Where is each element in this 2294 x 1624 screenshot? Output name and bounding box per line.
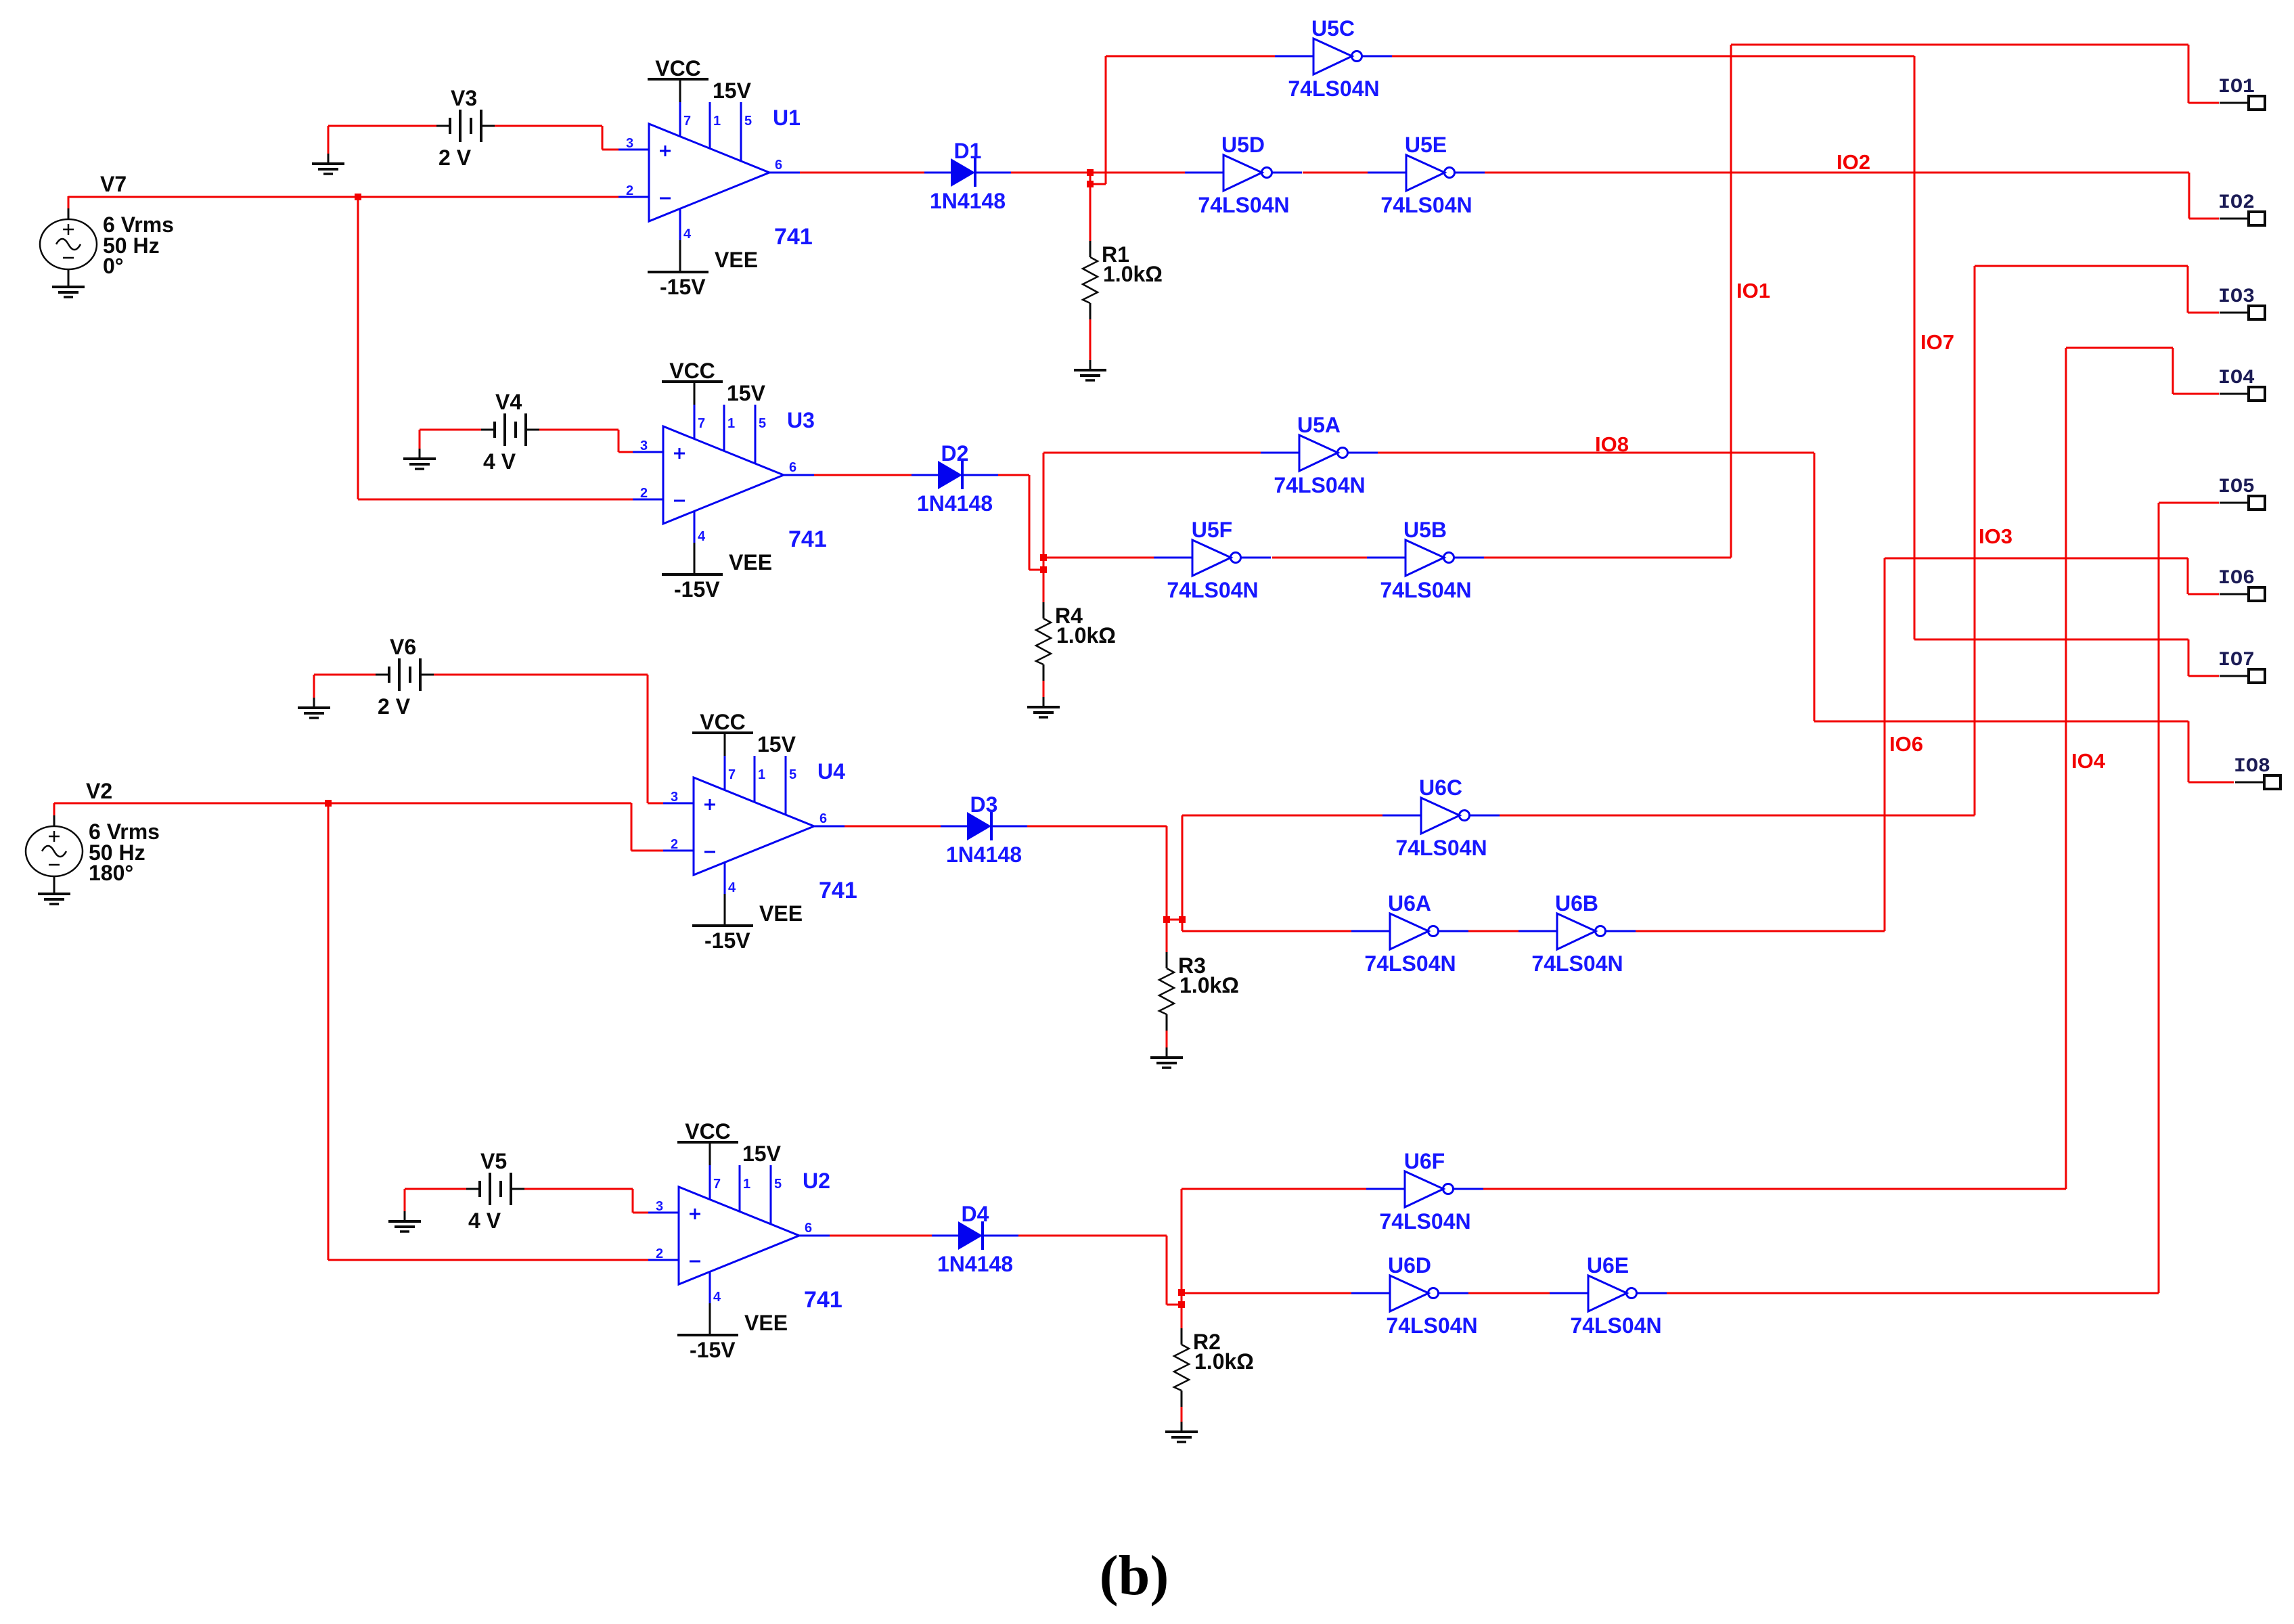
svg-text:5: 5 [744, 114, 752, 129]
svg-text:IO3: IO3 [1979, 524, 2012, 548]
svg-text:D3: D3 [970, 792, 998, 817]
svg-text:74LS04N: 74LS04N [1531, 951, 1623, 976]
svg-text:74LS04N: 74LS04N [1364, 951, 1456, 976]
svg-text:5: 5 [789, 767, 796, 782]
svg-text:74LS04N: 74LS04N [1380, 193, 1472, 217]
svg-text:1: 1 [713, 114, 721, 129]
svg-text:6: 6 [805, 1221, 812, 1236]
svg-text:U1: U1 [773, 106, 801, 130]
svg-text:1.0kΩ: 1.0kΩ [1179, 973, 1239, 997]
svg-text:IO8: IO8 [1595, 432, 1629, 456]
svg-text:2: 2 [640, 486, 648, 501]
svg-text:IO4: IO4 [2218, 367, 2255, 390]
svg-text:1.0kΩ: 1.0kΩ [1056, 623, 1116, 648]
svg-text:1N4148: 1N4148 [937, 1252, 1013, 1276]
svg-text:3: 3 [626, 136, 633, 151]
svg-text:15V: 15V [757, 732, 796, 757]
svg-text:1.0kΩ: 1.0kΩ [1103, 262, 1163, 286]
svg-text:4: 4 [713, 1290, 721, 1305]
svg-text:IO8: IO8 [2234, 755, 2270, 778]
svg-text:IO1: IO1 [2218, 76, 2255, 99]
svg-text:U6E: U6E [1587, 1253, 1629, 1278]
svg-text:15V: 15V [713, 78, 752, 103]
svg-text:IO2: IO2 [2218, 191, 2255, 215]
svg-text:180°: 180° [89, 861, 133, 885]
svg-text:4: 4 [683, 227, 692, 242]
svg-text:741: 741 [804, 1287, 842, 1313]
svg-text:U6F: U6F [1404, 1149, 1445, 1173]
svg-text:IO2: IO2 [1837, 150, 1870, 174]
svg-text:VEE: VEE [759, 901, 803, 926]
svg-text:1N4148: 1N4148 [930, 189, 1006, 213]
svg-text:-15V: -15V [660, 275, 706, 299]
svg-text:1N4148: 1N4148 [917, 491, 993, 516]
svg-text:V2: V2 [86, 779, 112, 803]
svg-text:74LS04N: 74LS04N [1379, 1209, 1470, 1234]
svg-text:VCC: VCC [655, 56, 701, 81]
svg-text:VEE: VEE [744, 1311, 788, 1335]
svg-text:6: 6 [819, 811, 827, 826]
svg-text:74LS04N: 74LS04N [1380, 578, 1471, 602]
svg-text:IO6: IO6 [1889, 732, 1923, 756]
svg-text:U5E: U5E [1405, 133, 1447, 157]
svg-text:U6D: U6D [1388, 1253, 1431, 1278]
svg-text:74LS04N: 74LS04N [1395, 836, 1487, 860]
svg-text:U2: U2 [803, 1169, 830, 1193]
svg-text:741: 741 [788, 526, 827, 552]
svg-text:0°: 0° [103, 254, 124, 278]
svg-text:7: 7 [728, 767, 736, 782]
svg-text:5: 5 [759, 416, 766, 431]
svg-text:741: 741 [774, 224, 813, 250]
svg-text:IO3: IO3 [2218, 286, 2255, 309]
svg-text:15V: 15V [742, 1142, 782, 1166]
svg-text:4 V: 4 V [468, 1209, 501, 1233]
svg-text:3: 3 [671, 790, 678, 805]
svg-text:1: 1 [743, 1177, 750, 1192]
svg-text:IO1: IO1 [1736, 279, 1770, 302]
svg-text:U5B: U5B [1403, 518, 1447, 542]
svg-text:4: 4 [728, 880, 736, 895]
svg-text:IO7: IO7 [1920, 330, 1954, 354]
svg-text:IO6: IO6 [2218, 567, 2255, 590]
svg-text:-15V: -15V [690, 1338, 736, 1362]
svg-text:4: 4 [698, 529, 706, 544]
svg-text:1N4148: 1N4148 [946, 842, 1022, 867]
svg-text:VCC: VCC [685, 1119, 731, 1144]
svg-text:1: 1 [758, 767, 765, 782]
svg-text:1.0kΩ: 1.0kΩ [1194, 1349, 1254, 1374]
svg-text:15V: 15V [727, 381, 766, 405]
svg-text:5: 5 [774, 1177, 782, 1192]
svg-text:3: 3 [640, 438, 648, 453]
svg-text:2: 2 [626, 183, 633, 198]
svg-text:7: 7 [713, 1177, 721, 1192]
svg-text:U4: U4 [817, 759, 845, 784]
svg-text:D1: D1 [954, 139, 982, 163]
svg-text:74LS04N: 74LS04N [1288, 76, 1379, 101]
svg-text:74LS04N: 74LS04N [1198, 193, 1289, 217]
svg-text:VEE: VEE [715, 248, 758, 272]
svg-text:6: 6 [789, 460, 796, 475]
svg-text:U5D: U5D [1221, 133, 1265, 157]
svg-text:U5C: U5C [1311, 16, 1355, 41]
svg-text:VEE: VEE [729, 550, 772, 574]
svg-text:U6C: U6C [1419, 775, 1462, 800]
svg-text:7: 7 [698, 416, 705, 431]
svg-text:V6: V6 [390, 635, 416, 659]
svg-text:U5A: U5A [1297, 413, 1341, 437]
svg-text:(b): (b) [1100, 1544, 1169, 1607]
svg-text:U5F: U5F [1192, 518, 1232, 542]
svg-text:2 V: 2 V [438, 145, 472, 170]
svg-text:6: 6 [775, 158, 782, 173]
svg-text:74LS04N: 74LS04N [1570, 1313, 1661, 1338]
svg-text:IO4: IO4 [2071, 749, 2106, 773]
svg-text:4 V: 4 V [483, 449, 516, 474]
svg-text:U3: U3 [787, 408, 815, 432]
svg-text:D4: D4 [962, 1202, 989, 1226]
svg-text:74LS04N: 74LS04N [1274, 473, 1365, 497]
svg-text:VCC: VCC [700, 710, 746, 734]
svg-text:3: 3 [656, 1199, 663, 1214]
svg-text:V3: V3 [451, 86, 477, 110]
svg-text:-15V: -15V [674, 577, 720, 602]
svg-text:U6B: U6B [1555, 891, 1598, 916]
svg-text:V4: V4 [495, 390, 522, 414]
svg-text:IO5: IO5 [2218, 476, 2255, 499]
svg-text:1: 1 [727, 416, 735, 431]
svg-text:U6A: U6A [1388, 891, 1431, 916]
svg-text:74LS04N: 74LS04N [1167, 578, 1258, 602]
svg-text:D2: D2 [941, 441, 969, 466]
svg-text:7: 7 [683, 114, 691, 129]
svg-text:VCC: VCC [669, 359, 715, 383]
svg-text:IO7: IO7 [2218, 649, 2255, 672]
svg-text:V7: V7 [100, 172, 127, 196]
svg-text:-15V: -15V [704, 928, 750, 953]
svg-text:74LS04N: 74LS04N [1386, 1313, 1477, 1338]
svg-text:V5: V5 [480, 1149, 507, 1173]
svg-text:2 V: 2 V [378, 694, 411, 719]
svg-text:2: 2 [656, 1246, 663, 1261]
svg-text:2: 2 [671, 837, 678, 852]
svg-text:741: 741 [819, 878, 857, 903]
